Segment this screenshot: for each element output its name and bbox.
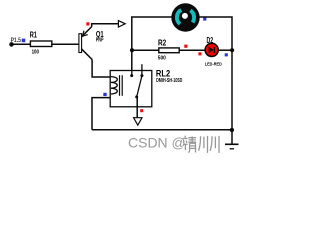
wire relay coil bottom loop (92, 98, 110, 130)
wire R1 to Q1 base (52, 43, 79, 45)
junction right rail D2 (230, 48, 234, 52)
red probe square relay common (140, 109, 143, 112)
svg-text:D2: D2 (207, 36, 214, 45)
svg-text:PNP: PNP (96, 38, 104, 44)
svg-text:P1.5: P1.5 (11, 37, 22, 44)
svg-text:100: 100 (32, 50, 39, 56)
junction fan branch / R2 (130, 48, 134, 52)
svg-text:R1: R1 (30, 29, 37, 39)
wire R2 to D2 (179, 49, 205, 51)
svg-text:500: 500 (158, 55, 166, 61)
transistor Q1 (79, 27, 104, 60)
wire fan right (199, 17, 232, 50)
ground (225, 130, 239, 149)
watermark CSDN (128, 134, 219, 153)
wire fan branch top (132, 17, 172, 71)
wire relay common pin (136, 97, 138, 122)
red probe square R2 right (184, 45, 187, 48)
wire D2 to right rail (218, 49, 232, 51)
red probe square D2 anode (198, 52, 201, 55)
svg-text:CSDN @: CSDN @ (128, 134, 186, 150)
wire bottom rail (92, 129, 232, 131)
resistor R2 (158, 39, 179, 62)
blue probe square P1.5 (22, 39, 26, 43)
wire P1.5 to R1 (12, 43, 31, 45)
relay RL2 (110, 64, 182, 107)
terminal arrow down (134, 118, 142, 126)
terminal arrow right (118, 21, 125, 27)
LED D2 (205, 36, 222, 67)
terminal P1.5 (9, 37, 21, 47)
svg-text:LED-RED: LED-RED (205, 61, 222, 67)
wire Q1 collector to relay coil (92, 60, 110, 78)
red probe square Q1 emitter (86, 22, 89, 25)
junction bottom right (230, 128, 234, 132)
wire right rail down (231, 50, 233, 130)
svg-text:R2: R2 (158, 39, 167, 48)
blue probe square D2 cathode (225, 53, 228, 56)
blue probe square relay coil (103, 93, 106, 96)
fan M1 (171, 3, 199, 31)
wire Q1 emitter (92, 24, 125, 27)
resistor R1 (30, 29, 52, 55)
wire junction to R2 (132, 49, 159, 51)
svg-text:OMIH-SH-105D: OMIH-SH-105D (156, 78, 183, 84)
blue probe square fan (203, 17, 206, 20)
